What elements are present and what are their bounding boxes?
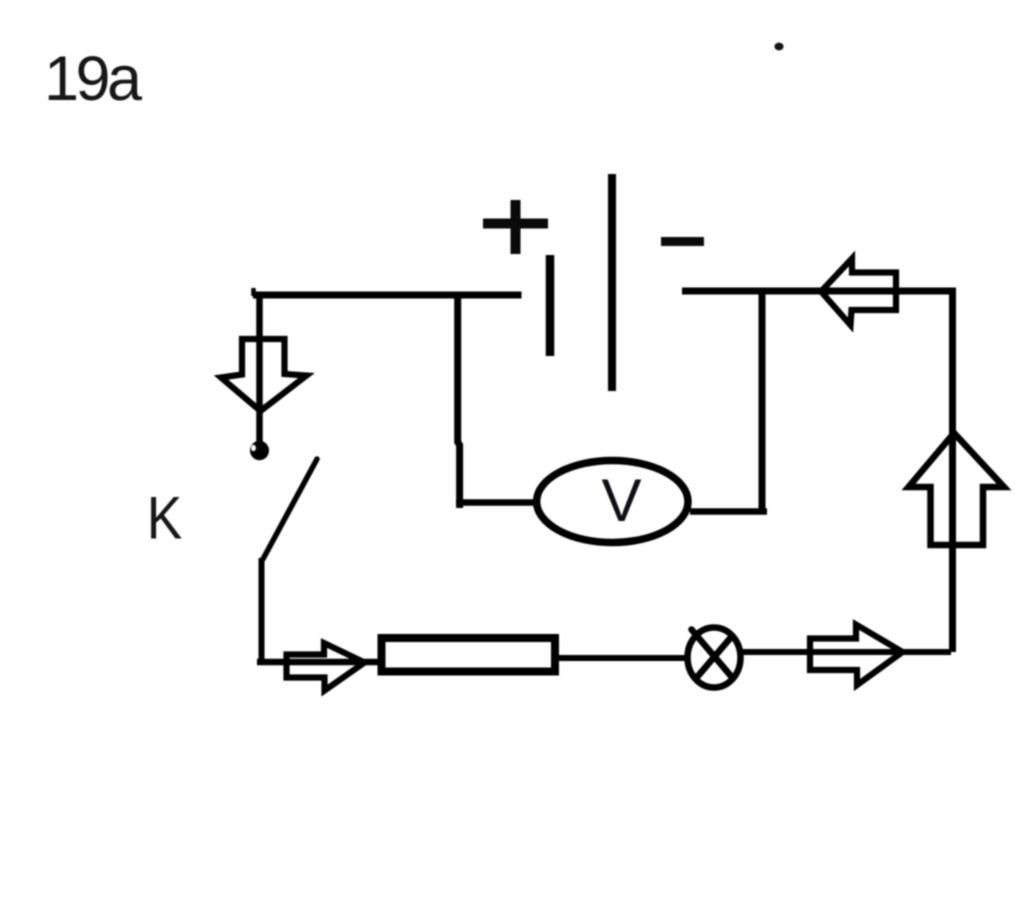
- svg-text:19a: 19a: [44, 44, 143, 114]
- battery short plate: [546, 255, 555, 356]
- svg-text:K: K: [147, 484, 183, 552]
- wire voltmeter right horizontal: [690, 508, 767, 515]
- wire top-left end tick: [251, 288, 256, 296]
- current arrow up (right): [909, 433, 1005, 545]
- wire voltmeter left vertical: [458, 292, 460, 508]
- wire voltmeter right vertical: [759, 290, 766, 512]
- current arrow left (top-right): [821, 259, 896, 326]
- wire top-right: [682, 288, 956, 295]
- wire switch to resistor: [257, 659, 384, 666]
- wire right vertical: [949, 291, 956, 652]
- svg-text:V: V: [602, 467, 642, 534]
- wire voltmeter left horizontal: [456, 499, 540, 506]
- wire lamp to right corner: [742, 649, 951, 655]
- battery minus label: [661, 237, 704, 246]
- current arrow down (left): [221, 339, 307, 411]
- current arrow right (bottom-right): [810, 625, 903, 686]
- resistor R: [382, 638, 556, 672]
- wire switch lower vertical: [259, 558, 265, 659]
- wire top-left: [253, 292, 522, 299]
- wire resistor to lamp: [555, 655, 689, 661]
- battery long plate: [608, 174, 616, 391]
- switch K blade: [263, 459, 317, 559]
- wire left corner drop: [256, 292, 263, 444]
- current arrow right (bottom-left): [287, 643, 365, 691]
- lamp L1 circle: [688, 628, 741, 688]
- lamp L1 cross: [692, 630, 731, 677]
- battery plus label: [483, 200, 548, 254]
- switch pivot blob: [250, 441, 269, 460]
- stray dot: [774, 43, 783, 51]
- voltmeter V ellipse: [537, 461, 688, 543]
